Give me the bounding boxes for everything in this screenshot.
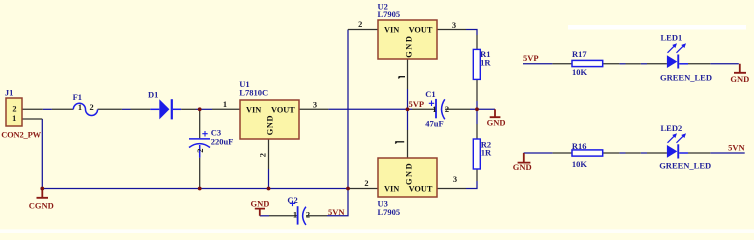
svg-text:L7905: L7905 — [378, 9, 401, 19]
svg-text:2: 2 — [196, 149, 205, 153]
svg-text:F1: F1 — [73, 92, 82, 102]
svg-text:VOUT: VOUT — [271, 106, 295, 115]
svg-text:2: 2 — [12, 105, 16, 114]
svg-text:GND: GND — [251, 199, 270, 209]
svg-text:10K: 10K — [572, 67, 588, 77]
svg-text:5VN: 5VN — [728, 142, 745, 152]
svg-text:VIN: VIN — [384, 185, 399, 194]
svg-text:1: 1 — [223, 100, 227, 109]
svg-text:VOUT: VOUT — [409, 185, 433, 194]
svg-text:2: 2 — [358, 20, 362, 29]
svg-text:GND: GND — [405, 162, 414, 185]
svg-text:C1: C1 — [425, 89, 435, 99]
svg-text:2: 2 — [364, 179, 368, 188]
svg-text:1: 1 — [432, 105, 436, 114]
svg-text:1R: 1R — [480, 58, 491, 68]
svg-text:GND: GND — [730, 74, 749, 84]
svg-text:220uF: 220uF — [211, 137, 234, 147]
svg-text:R17: R17 — [572, 49, 587, 59]
svg-text:5VP: 5VP — [409, 99, 425, 109]
svg-text:LED1: LED1 — [661, 32, 683, 42]
svg-text:LED2: LED2 — [661, 123, 683, 133]
svg-text:L7810C: L7810C — [239, 88, 268, 98]
svg-text:1: 1 — [12, 114, 16, 123]
svg-text:GND: GND — [266, 115, 275, 136]
svg-text:VOUT: VOUT — [409, 26, 433, 35]
svg-text:5VN: 5VN — [328, 207, 345, 217]
svg-text:VIN: VIN — [384, 26, 399, 35]
svg-text:L7905: L7905 — [378, 207, 401, 217]
svg-text:GND: GND — [487, 117, 506, 127]
svg-text:R16: R16 — [572, 141, 587, 151]
svg-text:2: 2 — [445, 105, 449, 114]
svg-text:3: 3 — [453, 175, 457, 184]
svg-text:1: 1 — [78, 103, 82, 112]
svg-text:2: 2 — [306, 211, 310, 220]
svg-text:GND: GND — [405, 35, 414, 58]
svg-text:2: 2 — [259, 153, 268, 157]
svg-text:GREEN_LED: GREEN_LED — [659, 160, 711, 170]
svg-text:2: 2 — [90, 103, 94, 112]
svg-text:C2: C2 — [287, 195, 297, 205]
svg-text:1R: 1R — [481, 148, 492, 158]
svg-text:3: 3 — [452, 21, 456, 30]
svg-text:J1: J1 — [5, 88, 14, 98]
svg-text:GREEN_LED: GREEN_LED — [660, 72, 712, 82]
svg-text:CGND: CGND — [29, 201, 54, 211]
svg-text:3: 3 — [313, 101, 317, 110]
svg-text:GND: GND — [513, 162, 532, 172]
svg-text:D1: D1 — [148, 90, 158, 100]
svg-text:CON2_PW: CON2_PW — [1, 129, 41, 139]
svg-text:5VP: 5VP — [523, 53, 539, 63]
svg-text:VIN: VIN — [246, 106, 261, 115]
svg-text:47uF: 47uF — [425, 119, 443, 129]
svg-text:10K: 10K — [572, 159, 588, 169]
svg-text:1: 1 — [293, 210, 297, 219]
